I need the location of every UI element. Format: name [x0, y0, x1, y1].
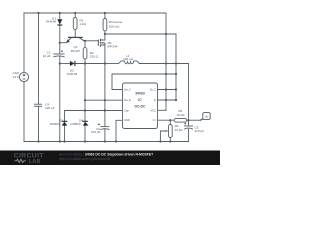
wire bottom ground rail	[24, 141, 189, 143]
wire battery vertical top	[23, 13, 25, 72]
junction R4 top feedback	[169, 119, 171, 121]
wire battery vertical bottom	[23, 82, 25, 142]
wire R5 right to out flag	[187, 119, 200, 121]
junction Ip wire vertical A	[165, 99, 167, 101]
svg-text:IRF244: IRF244	[108, 44, 118, 48]
svg-text:VCC: VCC	[151, 109, 157, 113]
IC pin labels left	[124, 88, 131, 123]
junction R3 bottom drain node	[104, 33, 106, 35]
footer text	[59, 153, 154, 161]
svg-text:1N4148: 1N4148	[67, 72, 78, 76]
junction rail drop drain wire	[165, 33, 167, 35]
diode D1 1N4148	[57, 19, 62, 25]
wire Q1 emitter horizontal	[60, 42, 66, 44]
svg-text:Sw_E: Sw_E	[124, 98, 131, 102]
wire C1 bottom lead	[59, 57, 61, 142]
wire D3 top corner to Cap pin	[65, 111, 123, 122]
svg-text:10 kΩ: 10 kΩ	[176, 113, 185, 117]
svg-text:Cap: Cap	[124, 109, 129, 113]
wire M1 source lead	[101, 45, 105, 64]
wire R2 top lead	[84, 41, 86, 48]
resistor R1	[73, 18, 77, 30]
junction D3 ground	[63, 140, 65, 142]
capacitor C3 470uF polarized	[184, 123, 193, 130]
junction C1 D2 node	[59, 62, 61, 64]
junction Cap wire C2 branch	[104, 109, 106, 111]
junction SwC wire vertical B	[175, 73, 177, 75]
svg-text:100 µH: 100 µH	[123, 57, 133, 61]
svg-text:LAB: LAB	[29, 159, 41, 165]
svg-text:10 kΩ: 10 kΩ	[175, 128, 184, 132]
svg-text:1 kΩ: 1 kΩ	[80, 22, 87, 26]
svg-text:BC327: BC327	[71, 49, 81, 53]
label C1 10uF	[43, 50, 51, 58]
svg-text:1N5819: 1N5819	[49, 122, 60, 126]
wire R4 wiper arm	[160, 131, 167, 142]
junction R4 wiper ground	[159, 140, 161, 142]
battery label CAR 14 V	[12, 71, 19, 79]
junction SwE wire D4 branch	[84, 99, 86, 101]
junction C1 ground	[59, 140, 61, 142]
wire C2 bottom to rail	[104, 129, 106, 141]
wire R3 top lead	[104, 13, 106, 19]
wire C3 bottom lead	[188, 129, 190, 141]
IC center labels	[135, 92, 146, 109]
resistor R3 Isense	[103, 19, 107, 31]
wire drain node horizontal	[105, 33, 176, 35]
junction L1 wire vertical B	[175, 62, 177, 64]
capacitor C2 470uF polarized	[98, 123, 110, 129]
potentiometer R4	[166, 125, 173, 138]
resistor R2	[83, 48, 87, 59]
wire D2 anode side	[60, 63, 70, 65]
svg-text:DC-DC: DC-DC	[135, 104, 146, 108]
junction R4 bottom ground	[169, 140, 171, 142]
svg-text:Dr_C: Dr_C	[150, 88, 156, 92]
svg-text:Vo: Vo	[205, 114, 209, 118]
junction Q1 emitter node	[59, 42, 61, 44]
svg-text:http://circuitlab.com/c/g2khab: http://circuitlab.com/c/g2khabav38	[59, 157, 110, 161]
junction DrC wire vertical B	[175, 88, 177, 90]
wire L1 to output corner	[140, 63, 189, 65]
junction Q1 collector R2 gate	[84, 40, 86, 42]
wire VIN vertical A	[165, 34, 167, 110]
diode D3 1N5819	[62, 121, 68, 125]
svg-text:14 V: 14 V	[13, 75, 19, 79]
label R2 220 Ohm	[90, 51, 99, 59]
junction Cap wire D4 branch	[84, 109, 86, 111]
svg-text:1N5819: 1N5819	[70, 122, 81, 126]
svg-text:220 pF: 220 pF	[45, 106, 55, 110]
label D4 1N5819	[70, 118, 83, 125]
junction C4 top rail	[37, 12, 39, 14]
mosfet M1 IRF244	[98, 39, 105, 47]
svg-text:1N4148: 1N4148	[45, 19, 56, 23]
label R5 10kOhm	[176, 109, 185, 117]
junction SwE wire C2 branch	[104, 99, 106, 101]
wire Q1 collector to M1 gate	[84, 40, 99, 42]
wire right rail corner from top	[165, 13, 167, 34]
junction C2 ground	[104, 140, 106, 142]
svg-text:34063: 34063	[135, 92, 145, 96]
svg-text:Sw_C: Sw_C	[124, 88, 131, 92]
label C4 220 pF	[45, 102, 55, 110]
wire M1 drain lead	[101, 34, 105, 40]
svg-text:10 µF: 10 µF	[43, 54, 51, 58]
junction D1 top rail	[59, 12, 61, 14]
svg-text:GND: GND	[124, 118, 130, 122]
label M1 IRF244	[108, 41, 118, 48]
wire R4 bottom lead	[169, 138, 171, 142]
svg-text:100 mΩ: 100 mΩ	[109, 24, 120, 28]
junction R3 top rail	[104, 12, 106, 14]
wire GND pin to ground rail	[116, 120, 123, 141]
label C3 470uF	[195, 125, 205, 133]
wire SwC pin loop	[112, 74, 176, 90]
wire CI feedback horizontal	[158, 119, 175, 121]
junction DrC wire vertical A	[165, 88, 167, 90]
label D3 1N5819	[49, 118, 63, 125]
wire VCC pin to vertical A	[158, 109, 167, 111]
wire R1 top lead	[74, 13, 76, 18]
footer bar	[0, 151, 220, 166]
svg-text:IC: IC	[138, 98, 142, 102]
wire top rail	[24, 12, 166, 14]
label R4 10kOhm	[175, 124, 184, 132]
wire Ip pin to vertical B	[158, 99, 177, 101]
junction IC GND ground	[115, 140, 117, 142]
label D1 1N4148	[45, 16, 56, 23]
junction R1 top rail	[74, 12, 76, 14]
junction R2 D2 wire	[84, 62, 86, 64]
junction D4 ground	[84, 140, 86, 142]
junction Ip wire vertical B	[175, 99, 177, 101]
label C2 470uF	[91, 127, 101, 134]
junction SwC wire vertical A	[165, 73, 167, 75]
footer logo CIRCUIT LAB	[14, 153, 45, 165]
label Vo inside flag	[205, 114, 209, 118]
wire VIN vertical B	[175, 34, 177, 100]
wire C4 branch lower	[38, 106, 40, 141]
svg-text:470 µF: 470 µF	[91, 130, 101, 134]
output net flag Vo	[200, 113, 210, 121]
junction C3 top feedback	[187, 119, 189, 121]
junction M1 source L1 node	[104, 62, 106, 64]
inductor L1 100uH	[119, 61, 140, 64]
svg-text:220 Ω: 220 Ω	[90, 54, 99, 58]
IC pin labels right	[150, 88, 157, 123]
wire R3 bottom lead	[104, 31, 106, 34]
transistor Q1 BC327 PNP	[66, 37, 84, 43]
wire SwE pin horizontal	[85, 99, 123, 101]
diode D2 1N4148	[70, 61, 75, 66]
resistor R5	[174, 118, 186, 122]
capacitor C4	[34, 104, 42, 106]
wire D1 top lead	[59, 13, 61, 19]
battery V1 CAR 14V	[19, 72, 28, 81]
label R3 Isense 100mOhm	[109, 20, 123, 28]
svg-text:470 µF: 470 µF	[195, 129, 205, 133]
wire switch node drop through C2 upper	[104, 64, 106, 127]
label D2 1N4148	[67, 68, 78, 76]
wire C4 branch upper	[38, 13, 40, 104]
wire output vertical	[188, 64, 190, 127]
wire R1 bottom to Q1 base	[74, 30, 76, 38]
wire DrC pin to vertical B	[158, 89, 177, 91]
wire D2 cathode to source node	[75, 63, 105, 65]
svg-text:C.I: C.I	[153, 118, 157, 122]
wire D3 bottom lead	[64, 126, 66, 142]
wire R2 node down to D4	[84, 64, 86, 122]
wire D4 bottom lead	[84, 126, 86, 142]
junction C4 ground	[37, 140, 39, 142]
label R1 1 kOhm	[80, 19, 87, 27]
wire D1 bottom to emitter node	[59, 26, 61, 54]
label Q1 BC327	[71, 45, 81, 53]
wire R4 top lead	[169, 120, 171, 124]
capacitor C1 10uF polarized	[53, 50, 64, 57]
wire R2 bottom lead	[84, 59, 86, 64]
label L1 100uH	[123, 54, 133, 61]
diode D4 1N5819	[82, 121, 88, 125]
wire source node to L1	[105, 63, 119, 65]
IC U1 34063 DC-DC box	[123, 83, 158, 129]
junction L1 wire vertical A	[165, 62, 167, 64]
